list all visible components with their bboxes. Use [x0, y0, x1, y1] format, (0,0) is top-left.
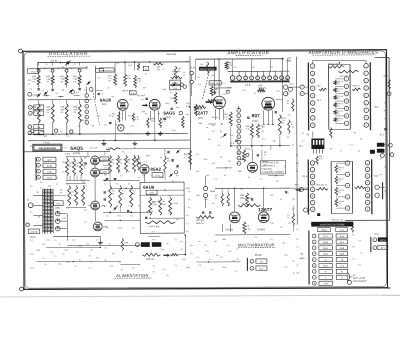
svg-text:GT2: GT2	[37, 107, 41, 109]
svg-text:R.2: R.2	[288, 223, 291, 225]
svg-text:85A2: 85A2	[150, 167, 161, 172]
svg-text:NRL17%: NRL17%	[353, 85, 361, 87]
svg-text:104: 104	[177, 71, 180, 73]
svg-text:C.2: C.2	[240, 189, 243, 191]
svg-text:4u: 4u	[84, 168, 86, 170]
svg-text:K8: K8	[38, 133, 40, 135]
svg-text:R17: R17	[30, 268, 33, 270]
svg-text:R4: R4	[214, 241, 216, 243]
svg-text:1u: 1u	[104, 205, 106, 207]
svg-text:R.2: R.2	[42, 244, 45, 246]
svg-text:42R: 42R	[40, 131, 44, 133]
svg-text:R.1: R.1	[180, 241, 183, 243]
svg-text:C4u: C4u	[160, 177, 163, 179]
svg-text:R2: R2	[66, 262, 68, 264]
svg-text:C.4: C.4	[104, 167, 107, 169]
svg-text:4u: 4u	[132, 227, 134, 229]
svg-text:4u: 4u	[215, 197, 217, 199]
svg-text:7m: 7m	[60, 112, 63, 114]
svg-text:DEPL.ZONE: DEPL.ZONE	[353, 278, 366, 280]
svg-text:C1: C1	[296, 247, 298, 249]
svg-text:1u: 1u	[44, 264, 46, 266]
svg-text:C.1: C.1	[350, 144, 353, 146]
svg-text:IMPE: IMPE	[380, 240, 386, 242]
svg-text:CL2: CL2	[270, 67, 273, 69]
svg-text:R4T.104: R4T.104	[196, 220, 205, 222]
svg-text:C2u: C2u	[186, 114, 189, 116]
svg-text:4u: 4u	[60, 192, 62, 194]
svg-text:1u: 1u	[54, 256, 56, 258]
svg-text:R.7: R.7	[222, 199, 225, 201]
svg-text:REN 14.7%: REN 14.7%	[328, 64, 339, 66]
svg-text:R66: R66	[186, 267, 189, 269]
svg-text:4u: 4u	[270, 239, 272, 241]
svg-text:4u: 4u	[358, 150, 360, 152]
svg-text:R7u: R7u	[284, 255, 287, 257]
svg-text:C.1: C.1	[204, 245, 207, 247]
svg-text:6: 6	[86, 122, 87, 124]
svg-text:GT2L: GT2L	[323, 266, 329, 268]
svg-text:47u: 47u	[104, 124, 107, 126]
svg-text:R.1: R.1	[116, 183, 119, 185]
svg-text:C2: C2	[118, 261, 120, 263]
svg-text:C.1: C.1	[254, 237, 257, 239]
svg-text:NR1: NR1	[166, 103, 170, 105]
svg-text:7%: 7%	[337, 106, 340, 108]
svg-text:R.2: R.2	[162, 269, 165, 271]
svg-text:C1u: C1u	[208, 139, 211, 141]
svg-text:C7: C7	[163, 69, 165, 71]
svg-text:95can: 95can	[255, 253, 263, 257]
svg-text:7%: 7%	[337, 98, 340, 100]
svg-text:C.1: C.1	[66, 136, 69, 138]
svg-text:C7: C7	[30, 186, 32, 188]
svg-text:(V8): (V8)	[55, 207, 60, 210]
svg-text:4u: 4u	[78, 260, 80, 262]
svg-text:C4: C4	[62, 172, 64, 174]
svg-text:2: 2	[86, 101, 87, 103]
svg-text:4u: 4u	[104, 259, 106, 261]
svg-text:4u: 4u	[206, 127, 208, 129]
svg-text:7m: 7m	[46, 81, 49, 83]
svg-text:GL4: GL4	[37, 113, 41, 115]
svg-text:C1u: C1u	[64, 250, 67, 252]
svg-text:7%: 7%	[338, 203, 341, 205]
svg-text:R6: R6	[84, 158, 86, 160]
svg-text:4u: 4u	[262, 131, 264, 133]
svg-text:C.7u: C.7u	[226, 119, 230, 121]
svg-text:4u: 4u	[208, 259, 210, 261]
svg-text:R.PRL: R.PRL	[65, 154, 71, 156]
svg-text:R.2: R.2	[72, 240, 75, 242]
svg-text:0: 0	[238, 163, 239, 165]
svg-text:NRL.7%: NRL.7%	[258, 88, 266, 90]
svg-text:1u: 1u	[287, 217, 289, 219]
svg-text:R17: R17	[262, 127, 265, 129]
svg-text:7%: 7%	[337, 113, 340, 115]
svg-text:4u: 4u	[198, 241, 200, 243]
svg-text:1u: 1u	[96, 239, 98, 241]
svg-text:4: 4	[86, 112, 87, 114]
svg-text:C2: C2	[40, 188, 42, 190]
svg-text:C1u: C1u	[263, 91, 266, 93]
svg-text:C.1: C.1	[64, 148, 67, 150]
svg-text:C.7: C.7	[186, 223, 189, 225]
svg-text:4u: 4u	[292, 273, 294, 275]
svg-text:GR2: GR2	[323, 254, 328, 256]
svg-text:9: 9	[238, 158, 239, 160]
svg-text:1W: 1W	[98, 115, 101, 117]
svg-text:C1: C1	[56, 178, 58, 180]
svg-text:C44: C44	[242, 157, 245, 159]
svg-text:(V13a): (V13a)	[225, 228, 233, 231]
svg-text:R2: R2	[220, 131, 222, 133]
svg-text:R6: R6	[118, 171, 120, 173]
svg-text:R17: R17	[243, 90, 246, 92]
svg-text:4u: 4u	[54, 240, 56, 242]
svg-text:R7: R7	[166, 275, 168, 277]
svg-text:R6: R6	[104, 174, 106, 176]
svg-text:4u: 4u	[108, 243, 110, 245]
svg-text:C17: C17	[46, 240, 49, 242]
svg-text:C4: C4	[86, 244, 88, 246]
svg-text:0: 0	[238, 110, 239, 112]
svg-text:R.6: R.6	[277, 91, 280, 93]
svg-text:7%: 7%	[337, 120, 340, 122]
svg-text:MULTIVIBRATEUR: MULTIVIBRATEUR	[238, 242, 274, 247]
svg-text:C7: C7	[120, 175, 122, 177]
svg-text:R4: R4	[84, 210, 86, 212]
svg-text:T.4: T.4	[101, 93, 104, 95]
svg-text:R4u: R4u	[129, 65, 132, 67]
svg-text:1W: 1W	[68, 166, 71, 168]
svg-text:4u: 4u	[122, 193, 124, 195]
svg-text:R.26: R.26	[173, 88, 177, 90]
svg-text:R.7: R.7	[108, 147, 111, 149]
svg-text:R44: R44	[176, 107, 179, 109]
svg-text:R1u: R1u	[204, 159, 207, 161]
svg-text:C.2: C.2	[126, 159, 129, 161]
svg-text:C7: C7	[292, 209, 294, 211]
svg-text:1u: 1u	[287, 103, 289, 105]
svg-text:R6: R6	[62, 90, 64, 92]
svg-text:R.6: R.6	[228, 161, 231, 163]
svg-text:R7u: R7u	[182, 259, 185, 261]
svg-text:4u: 4u	[360, 138, 362, 140]
svg-text:C1: C1	[286, 193, 288, 195]
svg-text:AN7L: AN7L	[323, 247, 329, 250]
svg-text:R47: R47	[206, 175, 209, 177]
svg-text:7%: 7%	[338, 181, 341, 183]
svg-text:C7: C7	[90, 261, 92, 263]
svg-text:C4: C4	[380, 158, 382, 160]
svg-text:3: 3	[238, 126, 239, 128]
svg-text:115/230: 115/230	[30, 232, 39, 234]
svg-text:4u2: 4u2	[167, 161, 170, 163]
svg-text:C7: C7	[340, 150, 342, 152]
svg-text:REN NRL.1%: REN NRL.1%	[316, 184, 327, 186]
svg-text:4.12: 4.12	[137, 81, 141, 83]
svg-text:NR6.7u: NR6.7u	[196, 223, 204, 225]
svg-text:C.1: C.1	[50, 252, 53, 254]
svg-text:C4: C4	[180, 249, 182, 251]
svg-text:C.2: C.2	[284, 267, 287, 269]
svg-text:5: 5	[238, 137, 239, 139]
svg-text:R.4: R.4	[40, 182, 43, 184]
svg-text:R.4: R.4	[292, 199, 295, 201]
svg-text:3c: 3c	[71, 68, 73, 70]
svg-text:7: 7	[238, 147, 239, 149]
svg-text:R17: R17	[66, 184, 69, 186]
svg-text:CL+: CL+	[234, 67, 237, 69]
svg-text:3: 3	[86, 106, 87, 108]
svg-text:C2: C2	[220, 157, 222, 159]
svg-text:1W: 1W	[220, 137, 223, 139]
svg-text:Cu: Cu	[282, 123, 284, 125]
svg-text:R7: R7	[160, 157, 162, 159]
svg-text:L6B: L6B	[48, 172, 52, 174]
svg-text:C4: C4	[236, 259, 238, 261]
svg-text:57.f: 57.f	[295, 185, 299, 187]
svg-text:57.A: 57.A	[245, 148, 250, 151]
svg-text:C1: C1	[176, 167, 178, 169]
svg-text:4u: 4u	[62, 254, 64, 256]
svg-text:1u: 1u	[66, 208, 68, 210]
svg-text:4u: 4u	[134, 147, 136, 149]
svg-text:4: 4	[238, 131, 239, 133]
svg-text:C1: C1	[234, 271, 236, 273]
svg-text:R47: R47	[68, 163, 71, 165]
svg-text:C.2: C.2	[358, 240, 361, 242]
svg-text:4u: 4u	[133, 193, 135, 195]
svg-text:R2: R2	[112, 96, 114, 98]
svg-text:C2: C2	[88, 255, 90, 257]
svg-text:C2: C2	[130, 215, 132, 217]
svg-text:4u: 4u	[90, 249, 92, 251]
svg-text:4u: 4u	[106, 215, 108, 217]
svg-text:C.4: C.4	[196, 257, 199, 259]
svg-text:RG.7u: RG.7u	[196, 109, 203, 111]
svg-text:R7: R7	[76, 252, 78, 254]
svg-text:R.1: R.1	[96, 257, 99, 259]
svg-text:C4: C4	[218, 145, 220, 147]
svg-text:1W: 1W	[82, 182, 85, 184]
svg-text:C.7: C.7	[74, 64, 77, 66]
svg-text:R7: R7	[109, 115, 111, 117]
svg-text:C2u: C2u	[205, 251, 208, 253]
svg-text:4u: 4u	[254, 93, 256, 95]
svg-text:C7: C7	[104, 183, 106, 185]
svg-text:C4: C4	[174, 265, 176, 267]
svg-text:4u: 4u	[352, 234, 354, 236]
svg-text:C4: C4	[30, 240, 32, 242]
svg-text:(AM): (AM)	[299, 257, 304, 260]
svg-text:57.a: 57.a	[374, 233, 379, 236]
svg-text:NRL 7%: NRL 7%	[146, 211, 153, 213]
svg-text:C.04F: C.04F	[150, 202, 156, 204]
svg-text:4u: 4u	[210, 269, 212, 271]
svg-text:G.L.LuF: G.L.LuF	[90, 147, 98, 149]
svg-text:R2: R2	[58, 264, 60, 266]
svg-text:AMPLIFICATEUR: AMPLIFICATEUR	[228, 50, 270, 55]
svg-text:52.f: 52.f	[375, 176, 379, 178]
svg-text:4u7: 4u7	[228, 251, 231, 253]
svg-text:1: 1	[86, 95, 87, 97]
svg-text:4u: 4u	[224, 175, 226, 177]
svg-text:R1: R1	[186, 231, 188, 233]
svg-text:7m: 7m	[108, 80, 111, 82]
svg-text:(V13b): (V13b)	[257, 228, 265, 231]
svg-text:4u: 4u	[145, 113, 147, 115]
svg-text:17N2: 17N2	[323, 283, 329, 285]
svg-text:R.2: R.2	[264, 165, 267, 167]
svg-text:C7: C7	[236, 249, 238, 251]
svg-text:C2: C2	[174, 239, 176, 241]
svg-text:52.a: 52.a	[303, 176, 308, 178]
svg-text:4u: 4u	[166, 243, 168, 245]
svg-text:RHS 303a: RHS 303a	[166, 54, 176, 56]
svg-text:4u2: 4u2	[186, 61, 189, 63]
svg-text:4u: 4u	[152, 231, 154, 233]
svg-text:4.7u: 4.7u	[162, 121, 166, 123]
svg-text:C7u: C7u	[262, 139, 265, 141]
svg-text:C7u: C7u	[131, 125, 134, 127]
svg-text:4u: 4u	[112, 193, 114, 195]
svg-text:K6: K6	[38, 127, 40, 129]
svg-text:6L6B: 6L6B	[47, 166, 53, 168]
svg-text:R1: R1	[354, 132, 356, 134]
svg-text:4u: 4u	[240, 129, 242, 131]
svg-text:AJ2: AJ2	[252, 66, 255, 69]
svg-text:R4: R4	[282, 243, 284, 245]
svg-text:R4: R4	[276, 181, 278, 183]
svg-text:4u: 4u	[84, 222, 86, 224]
svg-text:4u7: 4u7	[168, 195, 171, 197]
svg-text:6AQ5: 6AQ5	[70, 146, 83, 152]
svg-text:R4: R4	[112, 253, 114, 255]
svg-text:REC.LLL 7%: REC.LLL 7%	[331, 219, 343, 221]
svg-text:C1: C1	[132, 267, 134, 269]
svg-text:4u7: 4u7	[212, 163, 215, 165]
svg-text:C.2: C.2	[76, 93, 79, 95]
svg-text:1W: 1W	[62, 162, 65, 164]
svg-text:4u: 4u	[186, 215, 188, 217]
svg-text:FREQUENCES: FREQUENCES	[39, 147, 57, 150]
svg-text:2: 2	[302, 93, 303, 95]
svg-text:R42: R42	[44, 136, 47, 138]
svg-text:RPQ: RPQ	[317, 85, 322, 87]
svg-text:(V6): (V6)	[102, 172, 106, 174]
svg-text:4u: 4u	[228, 205, 230, 207]
svg-text:C.4: C.4	[196, 154, 199, 156]
svg-text:R2: R2	[330, 148, 332, 150]
svg-text:6AG5: 6AG5	[163, 111, 175, 116]
svg-text:C4u: C4u	[128, 115, 131, 117]
svg-text:7u: 7u	[120, 162, 122, 164]
svg-text:4u: 4u	[248, 177, 250, 179]
svg-text:1u: 1u	[236, 163, 238, 165]
svg-text:VL.A: VL.A	[190, 66, 196, 69]
svg-text:R.2: R.2	[116, 124, 119, 126]
svg-text:C.1: C.1	[117, 63, 120, 65]
svg-text:C.4: C.4	[42, 258, 45, 260]
svg-text:R.4: R.4	[176, 175, 179, 177]
svg-text:1u: 1u	[46, 64, 48, 66]
svg-text:R.1: R.1	[216, 255, 219, 257]
svg-text:C4u: C4u	[204, 199, 207, 201]
svg-text:1: 1	[238, 115, 239, 117]
svg-text:4u: 4u	[287, 137, 289, 139]
svg-text:C.2: C.2	[288, 115, 291, 117]
svg-text:50c/s: 50c/s	[30, 237, 36, 239]
svg-text:7m: 7m	[73, 81, 76, 83]
svg-text:7u: 7u	[128, 162, 130, 164]
svg-text:C1u: C1u	[168, 213, 171, 215]
svg-text:7%: 7%	[337, 91, 340, 93]
svg-text:C.4u: C.4u	[222, 94, 226, 96]
svg-text:C1: C1	[284, 167, 286, 169]
svg-text:4u: 4u	[188, 207, 190, 209]
svg-text:12.a: 12.a	[245, 83, 251, 87]
svg-text:1: 1	[302, 87, 303, 89]
svg-text:4u7: 4u7	[141, 99, 144, 101]
svg-text:R.2: R.2	[36, 192, 39, 194]
svg-text:1u: 1u	[56, 93, 58, 95]
svg-text:1.04F: 1.04F	[170, 98, 176, 100]
svg-text:6L5B: 6L5B	[323, 242, 329, 244]
svg-text:B4B 104: B4B 104	[146, 259, 155, 261]
svg-text:C4: C4	[352, 258, 354, 260]
svg-text:4u: 4u	[360, 252, 362, 254]
svg-text:R7: R7	[380, 174, 382, 176]
svg-text:R2: R2	[172, 181, 174, 183]
svg-text:7%: 7%	[338, 192, 341, 194]
svg-text:5%: 5%	[157, 69, 160, 71]
svg-text:12.A: 12.A	[230, 142, 235, 145]
svg-text:C.2: C.2	[144, 161, 147, 163]
svg-text:R44: R44	[222, 267, 225, 269]
svg-text:ADAPTATEUR D'IMPEDANCES: ADAPTATEUR D'IMPEDANCES	[309, 50, 379, 55]
svg-text:R17: R17	[30, 254, 33, 256]
svg-text:ZZZZ: ZZZZ	[47, 178, 53, 180]
svg-text:4u: 4u	[172, 161, 174, 163]
svg-text:C.1: C.1	[104, 247, 107, 249]
svg-text:6AU8: 6AU8	[100, 98, 112, 103]
svg-text:R.4: R.4	[198, 84, 201, 86]
svg-text:C4u: C4u	[270, 223, 273, 225]
svg-text:R.6: R.6	[230, 135, 233, 137]
svg-text:4u: 4u	[118, 159, 120, 161]
svg-text:C2u: C2u	[62, 218, 65, 220]
svg-text:6AU6: 6AU6	[143, 185, 155, 190]
svg-text:C.2: C.2	[198, 265, 201, 267]
svg-text:2c: 2c	[58, 68, 60, 70]
svg-text:C4: C4	[138, 177, 140, 179]
svg-text:R6: R6	[92, 125, 94, 127]
svg-text:C.7: C.7	[128, 205, 131, 207]
svg-text:C2: C2	[296, 155, 298, 157]
svg-text:4.7u: 4.7u	[135, 119, 139, 121]
svg-text:TY.23: TY.23	[31, 71, 37, 73]
svg-text:C2: C2	[30, 89, 32, 91]
svg-text:C4: C4	[292, 99, 294, 101]
svg-text:4u: 4u	[74, 266, 76, 268]
svg-text:C1: C1	[122, 151, 124, 153]
svg-text:C.1: C.1	[214, 179, 217, 181]
svg-text:4u: 4u	[270, 171, 272, 173]
svg-text:4u: 4u	[56, 184, 58, 186]
svg-text:4u7: 4u7	[212, 125, 215, 127]
